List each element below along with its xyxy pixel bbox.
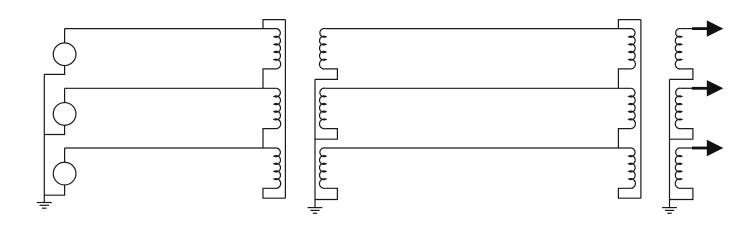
wire T2 secondary C bottom to neutral bar bbox=[670, 188, 693, 199]
output arrow phase A bbox=[692, 27, 707, 30]
wire T1 primary B bottom to phase C node bbox=[263, 129, 276, 148]
wire source VB top lead bbox=[64, 88, 66, 102]
wire output phase C bbox=[681, 147, 693, 149]
wire T2 primary C bottom to bottom rail bbox=[618, 188, 641, 198]
wire T1 secondary B bottom to neutral bar bbox=[315, 129, 337, 140]
wire source VC top lead bbox=[64, 148, 66, 162]
winding T2 secondary B (wye) bbox=[675, 88, 682, 129]
wire feeder phase C T1 to T2 bbox=[325, 147, 631, 149]
wire T2 secondary neutral bar bbox=[669, 79, 671, 207]
winding T2 primary B (delta) bbox=[629, 88, 636, 128]
output arrow phase C bbox=[692, 147, 707, 150]
wire T2 primary B bottom to phase C node bbox=[618, 129, 631, 148]
wire phase A source to T1 primary bbox=[65, 28, 277, 30]
wire T1 secondary C bottom to neutral bar bbox=[315, 188, 337, 199]
wire T1 delta link top rail bbox=[263, 20, 285, 29]
output arrow phase B bbox=[692, 87, 707, 90]
wire source VB bottom lead to neutral bus bbox=[44, 125, 64, 134]
wire feeder phase B T1 to T2 bbox=[325, 87, 631, 89]
winding T2 secondary C (wye) bbox=[675, 148, 682, 189]
wire source VA top lead bbox=[64, 29, 66, 43]
winding T2 primary C (delta) bbox=[629, 148, 636, 188]
winding T1 primary B (delta) bbox=[274, 88, 281, 128]
wire T2 secondary B bottom to neutral bar bbox=[670, 129, 693, 140]
AC source VA bbox=[53, 43, 76, 66]
wire T1 secondary A bottom to neutral bar bbox=[315, 69, 337, 80]
ground T1 secondary neutral bbox=[308, 207, 323, 209]
wire output phase A bbox=[681, 28, 693, 30]
ground T2 secondary neutral bbox=[662, 207, 677, 209]
wire T1 secondary neutral bar bbox=[314, 79, 316, 207]
AC source VC bbox=[53, 162, 76, 185]
wire phase C source to T1 primary bbox=[65, 147, 277, 149]
winding T1 secondary A (wye) bbox=[319, 28, 326, 69]
wire feeder phase A T1 to T2 bbox=[325, 28, 631, 30]
wire T2 delta right bar bbox=[640, 20, 642, 199]
winding T2 primary A (delta) bbox=[629, 29, 636, 69]
wire neutral bus bbox=[43, 74, 45, 202]
wire T1 delta right bar bbox=[284, 20, 286, 199]
wire output phase B bbox=[681, 87, 693, 89]
wire T1 primary C bottom to bottom rail bbox=[263, 188, 285, 198]
wire T2 secondary A bottom to neutral bar bbox=[670, 69, 693, 80]
wire phase B source to T1 primary bbox=[65, 87, 277, 89]
AC source VB bbox=[53, 103, 76, 126]
wire T2 delta link top rail bbox=[618, 20, 641, 29]
wire source VC bottom lead to neutral bus bbox=[44, 185, 64, 195]
wire T2 primary A bottom to phase B node bbox=[618, 69, 631, 88]
wire T1 primary A bottom to phase B node bbox=[263, 69, 276, 88]
winding T2 secondary A (wye) bbox=[675, 28, 682, 69]
winding T1 secondary B (wye) bbox=[319, 88, 326, 129]
winding T1 secondary C (wye) bbox=[319, 148, 326, 189]
wire source VA bottom lead to neutral bus bbox=[44, 66, 64, 75]
winding T1 primary A (delta) bbox=[274, 29, 281, 69]
ground source neutral bbox=[37, 202, 52, 204]
winding T1 primary C (delta) bbox=[274, 148, 281, 188]
